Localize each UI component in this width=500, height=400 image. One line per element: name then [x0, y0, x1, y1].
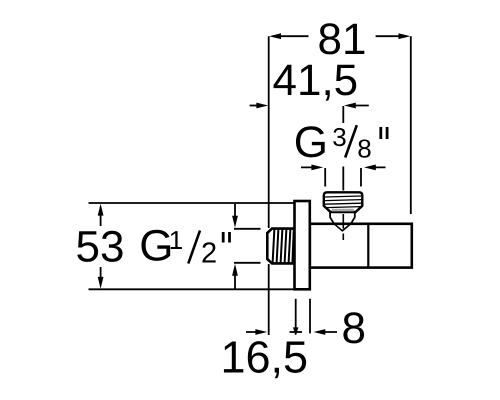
dimension 53 extension lines	[89, 203, 295, 289]
dimension 81 line + arrows	[269, 33, 410, 39]
dimension 41,5 arrows	[250, 103, 369, 109]
flange extension lines below	[296, 299, 310, 335]
svg-text:2: 2	[201, 237, 217, 269]
outlet divider line	[367, 224, 369, 268]
label G 1/2"	[139, 222, 229, 271]
svg-text:G: G	[294, 118, 328, 167]
dimension 8 arrow	[314, 329, 338, 335]
valve: body tube (flange to outlet)	[310, 224, 412, 268]
valve: internal cone V	[334, 224, 351, 231]
extension line left (valve left end / thread start)	[268, 36, 270, 335]
valve: wall flange	[295, 201, 310, 289]
dimension G3/8 arrows	[301, 165, 386, 171]
svg-text:53: 53	[76, 223, 125, 272]
label G 3/8"	[294, 118, 387, 167]
thread hatch lines	[273, 229, 294, 263]
svg-text:1: 1	[169, 225, 183, 255]
G1/2 thread extension lines (short)	[234, 229, 261, 263]
svg-text:8: 8	[357, 134, 371, 164]
nut bottom gray band	[332, 209, 354, 212]
svg-text:8: 8	[342, 304, 366, 353]
G1/2 dimension arrows	[232, 204, 238, 289]
dimension 16,5 arrows	[246, 327, 302, 335]
axis segments through neck	[342, 214, 344, 240]
axis extension segment under 41,5	[342, 106, 344, 123]
valve: top nut (knurled)	[324, 192, 363, 212]
valve: neck below nut with chamfer	[330, 212, 355, 224]
extension line right (valve right end)	[410, 36, 412, 214]
dimension 53 arrows	[98, 204, 104, 289]
svg-text:41,5: 41,5	[273, 56, 359, 105]
nut knurl lines	[325, 196, 362, 208]
svg-text:3: 3	[332, 122, 346, 152]
svg-text:16,5: 16,5	[221, 332, 309, 383]
valve: left thread G1/2 outline with chamfered corners	[267, 229, 295, 264]
small down-arrow terminator at flange-left extension line	[290, 331, 303, 333]
G3/8 extension lines to nut	[325, 167, 361, 191]
